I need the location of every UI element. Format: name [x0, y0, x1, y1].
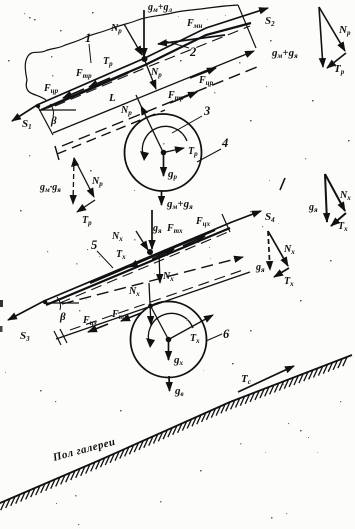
svg-text:Тх: Тх [190, 333, 200, 345]
svg-text:β: β [59, 311, 66, 323]
rotation arc inside pulley 6 [148, 313, 193, 345]
svg-text:Nх: Nх [283, 244, 295, 256]
rotation arc inside pulley [142, 126, 187, 158]
triangle B base T_x [274, 268, 289, 277]
svg-text:gм+gя: gм+gя [271, 47, 298, 60]
svg-text:4: 4 [221, 136, 228, 150]
svg-text:Тр: Тр [103, 56, 113, 68]
svg-text:Пол галереи: Пол галереи [51, 436, 117, 464]
normal force N_x onto return strand [149, 283, 151, 325]
dashed twin above return strand [70, 270, 243, 330]
svg-text:Тх: Тх [116, 249, 126, 261]
belt 2 band fill [90, 230, 215, 283]
svg-text:1: 1 [85, 31, 91, 45]
beta angle arc [50, 104, 54, 117]
svg-text:gя: gя [152, 223, 162, 235]
svg-text:2: 2 [189, 45, 196, 59]
gravity vector g_l onto belt 2 [151, 210, 153, 249]
roller radius extension to belt [136, 95, 141, 106]
pulley circle 6 [131, 302, 207, 378]
wavy outline left hook [26, 80, 46, 100]
svg-text:Тр: Тр [334, 63, 345, 76]
rotation arc arrowhead pulley 6 [146, 338, 155, 348]
svg-text:5: 5 [91, 238, 97, 252]
belt 2 lower edge line [46, 228, 230, 305]
triangle B hypotenuse N_x [268, 231, 288, 266]
normal force N_x mid vertical [159, 252, 160, 283]
beta angle base at S3 [44, 302, 79, 304]
belt 2 dashed line between edges [60, 232, 228, 303]
svg-text:Fцх: Fцх [82, 315, 98, 327]
wavy material outline over belt 1 [25, 5, 238, 80]
floor hatching [0, 357, 347, 512]
left tick of belt 1 return strand [55, 146, 59, 160]
force arrow F_cr left on belt 1 [63, 89, 84, 98]
svg-text:Nр: Nр [338, 24, 351, 37]
svg-text:gх: gх [173, 354, 184, 367]
small arrowhead at left triangle apex [71, 157, 79, 167]
gravity arrow g_r of pulley [163, 153, 165, 177]
svg-text:Fтр: Fтр [75, 68, 92, 80]
svg-text:S1: S1 [22, 118, 32, 131]
pulley center dot [161, 150, 167, 156]
beta arc at S3 [57, 297, 61, 310]
svg-text:Fтр: Fтр [167, 90, 184, 102]
ink blob at g junction belt 1 [142, 56, 148, 62]
dashed mid line of belt 2 return [62, 257, 243, 304]
far right force triangle A g vector [325, 174, 327, 222]
force arrow F_tr right on dashed strand [170, 92, 197, 103]
radius line to belt tangent [150, 305, 169, 340]
gravity arrow g_x of pulley 6 [168, 340, 170, 361]
leader for label 2 [165, 41, 189, 48]
svg-text:β: β [50, 115, 57, 127]
triangle A base T_x [331, 213, 346, 226]
left force triangle apex line g_m+g_l dashed [73, 158, 74, 204]
traction arrow T_r from pulley center [164, 148, 185, 153]
svg-text:Тх: Тх [284, 276, 294, 288]
svg-text:Nх: Nх [111, 231, 123, 243]
second dashed twin of belt 1 return strand left part [57, 110, 165, 154]
mid right force triangle B dashed g vector [268, 231, 270, 270]
svg-text:gя: gя [308, 202, 318, 214]
left triangle base T_r [77, 200, 95, 212]
svg-text:Nх: Nх [339, 190, 351, 202]
force arrow F_cx on belt 2 [183, 236, 205, 246]
second left tick of return strand [60, 329, 67, 343]
gravity arrow g_m+g_l below pulley [161, 191, 163, 205]
traction arrow T_c along floor [238, 366, 294, 392]
svg-text:3: 3 [203, 104, 210, 118]
pulley circle 3 [125, 114, 202, 191]
svg-text:S4: S4 [265, 211, 275, 224]
svg-text:Nх: Nх [128, 286, 140, 298]
return line 2 of belt 1 [53, 51, 254, 133]
inertia force arrow F_mn [158, 35, 225, 44]
svg-text:Fтх: Fтх [166, 223, 183, 235]
ink blob at N junction belt 2 [147, 249, 153, 255]
triangle A hypotenuse N_x [325, 174, 345, 211]
svg-text:L: L [108, 92, 116, 104]
svg-text:Тр: Тр [82, 215, 92, 227]
leader for label 6 [206, 334, 222, 341]
svg-text:Nр: Nр [150, 67, 162, 79]
svg-text:gм+gя: gм+gя [166, 198, 193, 211]
svg-text:Fцх: Fцх [195, 216, 211, 228]
belt 2 top line with S3 S4 arrows [8, 211, 261, 320]
dashed return strand of belt 1 [62, 65, 262, 146]
stray mark 1 near triangle A [280, 178, 285, 190]
roller radius line with N_p arrow [141, 106, 163, 152]
leader for label 4 [197, 149, 221, 162]
normal force N_p upper-left short arrow [124, 24, 142, 55]
left end tick of belt 1 [37, 105, 53, 135]
svg-text:Nр: Nр [110, 23, 122, 35]
force arrow F_tx on return strand [121, 313, 141, 321]
rotation arc arrowhead [140, 151, 149, 161]
leader for label 3 [172, 116, 202, 133]
belt 1 band fill left part [47, 73, 128, 108]
svg-text:Тх: Тх [338, 221, 348, 233]
leader for label 5 [97, 251, 113, 268]
pulley 6 center dot [166, 337, 172, 343]
svg-text:S3: S3 [20, 330, 30, 343]
beta angle base line at S1 [39, 109, 76, 111]
left triangle hypotenuse N_p [74, 158, 94, 197]
gravity vector g_m+g_l onto belt 1 [143, 10, 145, 57]
normal force N_p below junction [145, 61, 156, 89]
svg-text:gм·gя: gм·gя [39, 182, 61, 194]
right end tick of belt 1 [238, 5, 256, 48]
force arrow F_cr right on line 2 [190, 68, 216, 78]
traction arrow T_x on belt 2 [129, 259, 147, 267]
right tick of belt 2 [222, 214, 230, 232]
top right triangle T_r [327, 53, 346, 68]
svg-text:6: 6 [223, 327, 230, 341]
ink blob at S1 corner [36, 104, 40, 108]
svg-text:gр: gр [167, 168, 178, 181]
normal force N_x diagonal into belt 2 [136, 231, 148, 250]
svg-text:Nр: Nр [91, 176, 103, 188]
ink blob tangent circle 2 [148, 304, 153, 309]
belt 1 top line with S1 S2 arrows [12, 8, 268, 121]
svg-text:Fцр: Fцр [198, 75, 214, 87]
svg-text:gв: gв [174, 385, 184, 398]
svg-text:Nр: Nр [120, 105, 132, 117]
force arrow F_tr left on belt 1 [89, 78, 110, 87]
svg-text:gм+gл: gм+gл [147, 2, 173, 14]
return strand of belt 2 [56, 272, 250, 339]
svg-text:Fмн: Fмн [186, 18, 202, 30]
ink blob at S3 corner [43, 300, 47, 304]
force arrow F_tx on belt 2 [152, 249, 174, 259]
gravity arrow g_v below pulley 6 [168, 376, 171, 391]
belt 1 lower edge line [41, 23, 251, 110]
leader for label 1 [89, 44, 91, 63]
svg-text:Тр: Тр [188, 146, 198, 158]
top right triangle N_p [319, 7, 345, 51]
force arrow F_cx on return strand [88, 324, 108, 332]
top right force triangle g vector [319, 7, 323, 67]
svg-text:S2: S2 [265, 15, 275, 28]
floor line of gallery [0, 355, 352, 503]
svg-text:gя: gя [255, 262, 265, 274]
traction arrow T_x from pulley 6 [169, 315, 214, 340]
left double tick of return strand [54, 331, 61, 345]
svg-text:Fцр: Fцр [43, 83, 59, 95]
svg-text:Тс: Тс [241, 373, 251, 386]
belt 1 dashed line between edges [55, 26, 250, 106]
